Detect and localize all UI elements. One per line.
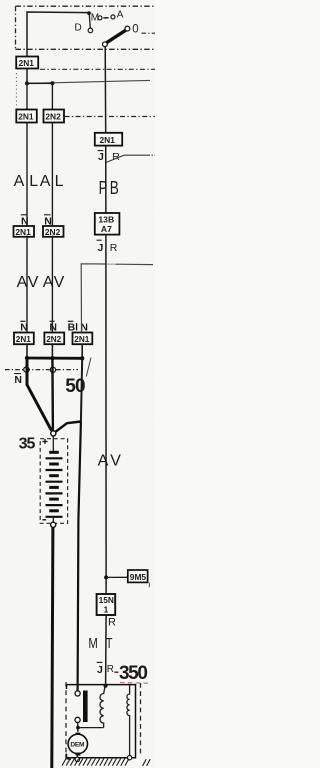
battery plus sign (43, 439, 48, 444)
wire to connector 2N2 row2 (51, 83, 53, 109)
svg-text:J: J (98, 151, 104, 163)
label 350 (circuit ref, red) (114, 671, 118, 673)
solenoid contact bottom (75, 717, 80, 722)
battery 35 (dashed outline) (40, 439, 67, 524)
ignition switch contact A (111, 15, 115, 19)
svg-text:2N1: 2N1 (15, 227, 31, 237)
wire horizontal distribution (27, 80, 150, 83)
connector 15N 1 (97, 594, 116, 615)
connector 2N1 (row 2) (16, 110, 37, 123)
field coil L2 (127, 685, 130, 756)
wire crossing branch to Bl N connector (81, 264, 106, 333)
svg-text:P: P (99, 177, 108, 198)
battery positive terminal (51, 431, 56, 436)
ignition switch S1 contact D (88, 28, 93, 33)
ignition switch lever (rotor) (105, 30, 126, 44)
wire motor to ground terminal (77, 755, 79, 758)
wire AL (left) (26, 123, 28, 227)
starter enclosure box (67, 685, 136, 758)
connector 2N2 (row 4 mid) (44, 333, 64, 345)
battery stub top (52, 436, 54, 451)
field coil terminal at ground (127, 756, 131, 760)
svg-text:2N1: 2N1 (18, 112, 34, 122)
zone boundary faint dotted (left, between connectors) (15, 73, 17, 109)
zone boundary corner bottom-left (66, 754, 71, 760)
wire battery negative to ground (thick cable) (52, 527, 53, 768)
svg-text:35: 35 (19, 435, 36, 452)
battery negative terminal (51, 522, 56, 527)
wire bottom contact to motor node (77, 723, 79, 732)
svg-text:2N2: 2N2 (45, 227, 61, 237)
connector 9M5 (128, 570, 148, 582)
starter motor DEM brush pad bottom (76, 753, 81, 756)
wire main down through crossing (105, 235, 107, 578)
connector 2N1 (right, row A) (95, 133, 122, 146)
svg-text:0: 0 (132, 23, 138, 35)
svg-text:M: M (88, 636, 97, 652)
zone boundary below connector row 1 (dash-dot) (40, 68, 155, 70)
wire mid N to battery (51, 358, 54, 431)
zone boundary at connector row 2 (dash-dot) (65, 116, 156, 118)
wire battery jog to starter cable (56, 422, 81, 432)
wire from connector row1 down (26, 69, 28, 84)
grommet on left N wire (24, 367, 29, 372)
wire main ignition feed down right side (104, 47, 107, 133)
connector 2N2 (row 2) (44, 110, 65, 123)
svg-text:D: D (75, 23, 82, 34)
connector 2N2 (row 3) (43, 226, 64, 237)
node junction right (50, 81, 54, 85)
svg-text:2N1: 2N1 (19, 58, 35, 68)
wire stub to solenoid top contact (77, 685, 79, 691)
svg-text:A: A (17, 274, 28, 291)
svg-text:V: V (110, 453, 121, 470)
wire AV (right) (51, 236, 53, 333)
node junctions on bus (25, 356, 29, 360)
svg-text:L: L (55, 173, 64, 190)
wire M T segment (105, 615, 108, 686)
connector 2N1 (row 4 right) (73, 333, 93, 345)
wire P B segment (105, 146, 107, 213)
svg-text:DEM: DEM (70, 742, 85, 749)
svg-text:A7: A7 (101, 224, 112, 234)
grommet on mid N wire (50, 367, 55, 372)
svg-text:J: J (98, 242, 104, 254)
svg-text:V: V (54, 274, 65, 291)
node junction main wire at starter (104, 684, 108, 688)
solenoid coil L1 (100, 685, 105, 728)
zone boundary right of starter (dash-dot) (140, 683, 142, 756)
svg-text:N: N (14, 374, 22, 386)
wire motor node to solenoid coil bottom (78, 727, 104, 729)
connector 2N1 (row 3) (14, 226, 35, 237)
ground (hatched chassis) (62, 759, 129, 766)
svg-text:J: J (97, 664, 103, 676)
svg-text:A: A (98, 453, 109, 470)
wire AV (left) (26, 236, 28, 333)
svg-text:2N1: 2N1 (74, 335, 89, 344)
node junction to 9M5 (104, 575, 108, 579)
svg-text:L: L (29, 173, 38, 190)
battery cells (46, 452, 63, 517)
wire starter cable down (78, 422, 81, 691)
node junction left (25, 81, 29, 85)
svg-text:2N1: 2N1 (100, 135, 116, 145)
zone boundary left of starter (dash-dot) (65, 682, 67, 755)
svg-text:350: 350 (119, 663, 147, 684)
zone boundary top-left (dash-dot) (16, 6, 156, 50)
svg-text:R: R (107, 664, 114, 675)
svg-text:2N2: 2N2 (46, 335, 61, 344)
svg-text:R: R (108, 617, 116, 629)
wire AL (right) (51, 123, 53, 227)
svg-text:A: A (117, 10, 124, 21)
svg-text:A: A (43, 274, 54, 291)
svg-text:2N1: 2N1 (16, 335, 31, 344)
zone boundary kink (86, 358, 91, 377)
zone boundary above battery (dash-dot) (5, 369, 78, 371)
wire from ignition switch D to connector (top feed) (27, 12, 89, 57)
wire branch to 9M5 (106, 576, 128, 578)
wire left N to battery (bend) (27, 358, 52, 431)
battery stub bottom (52, 517, 54, 524)
svg-text:2N2: 2N2 (45, 112, 61, 122)
starter motor DEM brush pad top (76, 733, 81, 736)
wire stubs row4 to bus (26, 344, 28, 358)
svg-text:9M5: 9M5 (130, 572, 147, 582)
connector 13B A7 (95, 213, 120, 235)
starter motor DEM (68, 734, 87, 753)
svg-text:V: V (28, 274, 39, 291)
svg-text:T: T (106, 636, 113, 652)
bus bar joining N wires (26, 357, 83, 360)
connector 2N1 (row 4 left) (14, 333, 34, 345)
ground terminal under motor (75, 757, 79, 761)
ground (hatched chassis, right patch) (143, 759, 151, 766)
battery minus sign (42, 519, 46, 521)
svg-text:A: A (40, 173, 51, 190)
wire stub to D contact (89, 13, 90, 28)
wire to connector 2N1 row2 (26, 83, 28, 109)
solenoid contact top (75, 691, 80, 696)
wire to 15N connector (105, 577, 107, 594)
wire branch to right edge (off page) (106, 155, 150, 162)
wire continuation from 0 contact (dash-dot, off page) (142, 32, 156, 34)
wire third N down to starter cable junction (81, 358, 82, 421)
node junction at switch feed (87, 11, 91, 15)
svg-text:B: B (110, 177, 119, 198)
node junction at motor top (76, 726, 80, 730)
svg-text:1: 1 (104, 604, 109, 614)
connector 2N1 (row 1) (16, 57, 38, 69)
svg-text:A: A (14, 173, 25, 190)
solenoid moving contact bar (83, 691, 88, 723)
svg-text:R: R (110, 242, 118, 254)
